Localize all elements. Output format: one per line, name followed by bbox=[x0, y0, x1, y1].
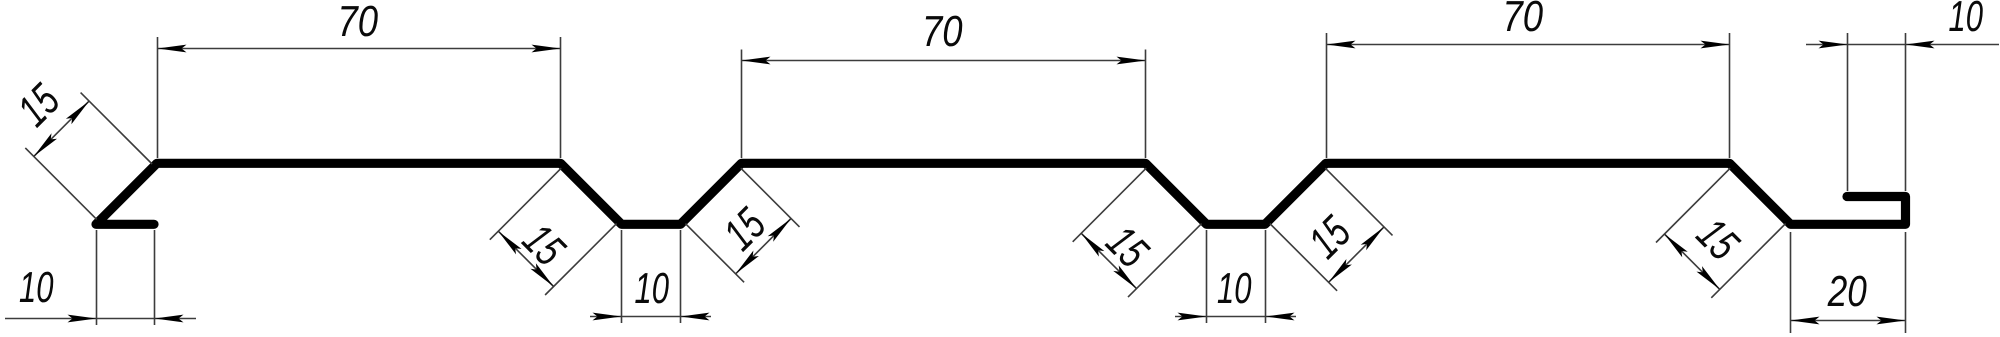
dimension 70 (third top flat) bbox=[1327, 1, 1730, 158]
dimension 15 (second valley left slope) bbox=[1073, 168, 1202, 297]
dimension 15 (left end slope) bbox=[15, 81, 152, 219]
panel profile outline (thick polyline) bbox=[96, 163, 1906, 224]
dimension 10 (left hem width) bbox=[5, 230, 196, 325]
dimension 15 (second valley right slope) bbox=[1270, 168, 1393, 291]
dimension 15 (right end slope) bbox=[1656, 168, 1786, 298]
dimension 15 (first valley left slope) bbox=[490, 168, 617, 295]
dimension 10 (first valley bottom) bbox=[590, 230, 711, 323]
dimension 10 (second valley bottom) bbox=[1175, 230, 1296, 323]
dimension 15 (first valley right slope) bbox=[685, 168, 799, 282]
dimension 20 (right bottom flat) bbox=[1791, 232, 1906, 333]
dimension 70 (second top flat) bbox=[742, 16, 1146, 158]
dimension 70 (first top flat) bbox=[158, 6, 561, 158]
dimension 10 (right hook width) bbox=[1806, 1, 1999, 191]
